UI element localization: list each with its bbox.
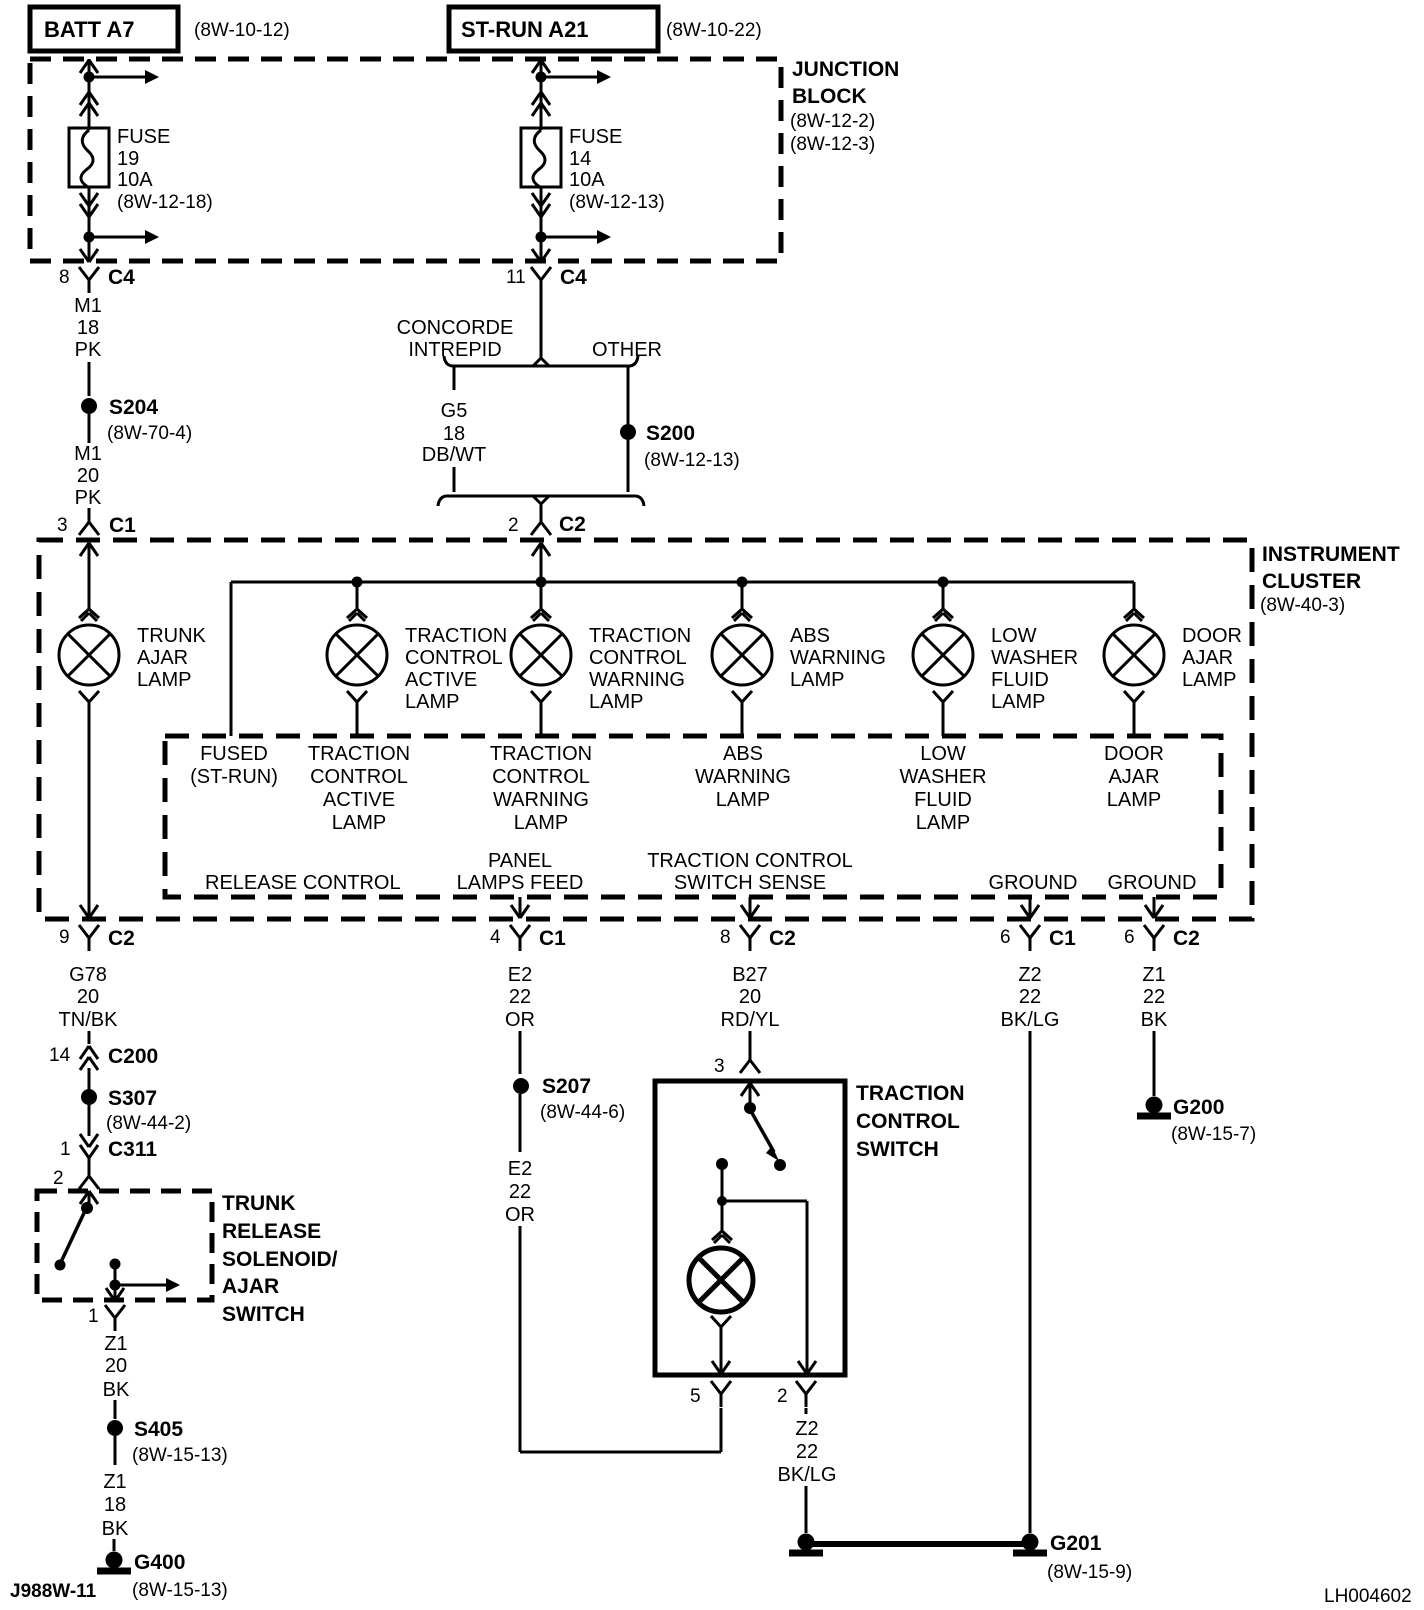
lamp fork top [531, 609, 551, 621]
label TRACTION CONTROL WARNING LAMP [589, 625, 691, 713]
label S204 (8W-70-4) [107, 396, 192, 444]
wire E2 22 OR lower [505, 1094, 535, 1226]
svg-text:6: 6 [1000, 927, 1011, 948]
svg-text:ACTIVE: ACTIVE [405, 669, 477, 691]
svg-text:LAMP: LAMP [716, 789, 770, 811]
splice S405 [107, 1420, 123, 1436]
wire below fuse [88, 187, 91, 261]
power feed box BATT A7 [30, 7, 178, 51]
wire cluster output x=750 [741, 897, 759, 918]
connector C2 pin 6 [1124, 925, 1200, 951]
lamp fork bottom [531, 691, 551, 702]
svg-text:Z2: Z2 [795, 1418, 818, 1440]
label G400 (8W-15-13) [132, 1551, 228, 1601]
arrow out of trunk release box [106, 1288, 124, 1301]
branch split bus [444, 356, 638, 366]
svg-text:CONTROL: CONTROL [589, 647, 687, 669]
lamp fork bottom [347, 691, 367, 702]
svg-text:PK: PK [75, 339, 102, 361]
wire lamp to cluster pins [942, 702, 945, 736]
svg-text:AJAR: AJAR [1108, 766, 1159, 788]
ground G201 right [1013, 1534, 1047, 1554]
svg-text:G5: G5 [441, 400, 468, 422]
svg-text:18: 18 [443, 423, 465, 445]
bus junction at x=357 [352, 577, 363, 588]
svg-text:Z1: Z1 [104, 1333, 127, 1355]
svg-text:FLUID: FLUID [914, 789, 972, 811]
svg-text:18: 18 [77, 317, 99, 339]
arrow into trunk release box [80, 1191, 98, 1204]
splice S207 [513, 1078, 529, 1094]
splice S204 [81, 398, 97, 414]
svg-text:SOLENOID/: SOLENOID/ [222, 1248, 338, 1271]
svg-text:LAMP: LAMP [137, 669, 191, 691]
svg-text:TRACTION: TRACTION [856, 1082, 965, 1105]
label G200 (8W-15-7) [1171, 1096, 1256, 1145]
switch internal junction [717, 1196, 807, 1361]
svg-text:2: 2 [53, 1168, 64, 1189]
instrument cluster label [1260, 543, 1400, 616]
svg-text:DOOR: DOOR [1104, 743, 1164, 765]
arrow into cluster at C1 [80, 543, 98, 556]
svg-text:BK: BK [1141, 1009, 1168, 1031]
svg-text:BK: BK [102, 1518, 129, 1540]
cluster feed bus [231, 582, 1134, 736]
svg-text:RELEASE CONTROL: RELEASE CONTROL [205, 872, 401, 894]
wire to S307 [88, 1068, 91, 1089]
wire lamp to cluster pins [741, 702, 744, 736]
connector pin 3 fork [714, 1047, 760, 1077]
wire G78 20 TN/BK [59, 964, 119, 1031]
lamp DOOR AJAR [1104, 625, 1164, 685]
lamp LOW WASHER [913, 625, 973, 685]
svg-text:ABS: ABS [790, 625, 830, 647]
svg-text:(8W-12-13): (8W-12-13) [644, 450, 740, 471]
svg-text:(8W-70-4): (8W-70-4) [107, 423, 192, 444]
svg-text:G201: G201 [1050, 1532, 1102, 1555]
wire cluster output x=1030 [1021, 897, 1039, 918]
lamp fork top [933, 609, 953, 621]
svg-text:22: 22 [509, 986, 531, 1008]
trunk ajar lamp fork top [79, 609, 99, 621]
svg-text:WARNING: WARNING [790, 647, 886, 669]
label CONCORDE INTREPID [397, 317, 514, 361]
svg-text:CONTROL: CONTROL [492, 766, 590, 788]
svg-text:B27: B27 [732, 964, 768, 986]
inline connector C200 pin 14 [49, 1045, 158, 1070]
svg-text:Z1: Z1 [103, 1471, 126, 1493]
wire to C311 [88, 1105, 91, 1136]
svg-text:9: 9 [59, 927, 70, 948]
svg-text:FUSED: FUSED [200, 743, 268, 765]
instrument cluster box [39, 540, 1252, 919]
svg-text:G200: G200 [1173, 1096, 1224, 1119]
svg-text:C311: C311 [108, 1138, 157, 1161]
wire to C200 [88, 1031, 91, 1044]
svg-text:TRACTION: TRACTION [308, 743, 410, 765]
svg-text:S204: S204 [109, 396, 158, 419]
pin function label GROUND (C1) [989, 872, 1078, 894]
svg-text:RELEASE: RELEASE [222, 1220, 321, 1243]
svg-text:TRUNK: TRUNK [222, 1192, 296, 1215]
label ABS WARNING LAMP [790, 625, 886, 691]
svg-text:8: 8 [720, 927, 731, 948]
connector C4 pin 11 [506, 266, 587, 293]
svg-text:10A: 10A [569, 169, 605, 191]
svg-text:CONTROL: CONTROL [405, 647, 503, 669]
fuse 14 value label [569, 126, 665, 213]
solenoid junction + branch arrow [110, 1278, 181, 1298]
arrow into traction switch box [741, 1083, 759, 1103]
svg-text:C1: C1 [1049, 927, 1076, 950]
arrow to switch pin 2 [798, 1361, 816, 1374]
wire to trunk release switch [88, 1158, 91, 1170]
svg-text:WARNING: WARNING [589, 669, 685, 691]
lamp TRACTION CONTROL [327, 625, 387, 685]
switch lamp fork bottom [711, 1316, 731, 1327]
svg-text:TRACTION: TRACTION [490, 743, 592, 765]
lamp drop wire x=943 [942, 582, 945, 609]
svg-text:E2: E2 [508, 1158, 532, 1180]
lamp fork top [732, 609, 752, 621]
svg-text:AJAR: AJAR [137, 647, 188, 669]
wire M1 18 PK [74, 295, 102, 396]
svg-text:C1: C1 [539, 927, 566, 950]
svg-text:WASHER: WASHER [899, 766, 986, 788]
connector C2 pin 8 [720, 925, 796, 951]
wire trunk lamp to C2 pin 9 [88, 702, 91, 918]
svg-text:ACTIVE: ACTIVE [323, 789, 395, 811]
wire lamp to cluster pins [356, 702, 359, 736]
wire lamp to cluster pins [1133, 702, 1136, 736]
svg-text:(8W-15-13): (8W-15-13) [132, 1580, 228, 1601]
svg-text:BATT A7: BATT A7 [44, 17, 134, 42]
svg-text:FUSE: FUSE [569, 126, 622, 148]
svg-text:(8W-40-3): (8W-40-3) [1260, 595, 1345, 616]
traction control switch box [655, 1081, 845, 1375]
svg-text:(8W-12-3): (8W-12-3) [790, 134, 875, 155]
switch lamp fork top [712, 1231, 732, 1243]
svg-text:(8W-10-12): (8W-10-12) [194, 20, 290, 41]
arrow into junction block [532, 60, 550, 73]
svg-text:M1: M1 [74, 443, 102, 465]
svg-text:5: 5 [690, 1386, 701, 1407]
wire lamp to cluster pins [540, 702, 543, 736]
trunk release solenoid/ajar switch box [37, 1191, 212, 1300]
svg-text:18: 18 [104, 1494, 126, 1516]
svg-text:11: 11 [506, 267, 526, 288]
label LH004602 [1324, 1586, 1412, 1607]
svg-text:14: 14 [569, 148, 591, 170]
branch merge bus [438, 496, 644, 509]
svg-text:INSTRUMENT: INSTRUMENT [1262, 543, 1400, 566]
connector C4 pin 8 [59, 266, 135, 293]
wire Z1 22 BK [1141, 964, 1168, 1031]
wire BATT feed at x=541 [540, 59, 543, 128]
wire Z1 20 BK [103, 1333, 130, 1419]
arrow into cluster at C2 [532, 543, 550, 556]
wire M1 20 PK [74, 414, 102, 509]
svg-text:G78: G78 [69, 964, 107, 986]
wire lamp to pin 5 [712, 1327, 730, 1374]
switch blade [752, 1113, 786, 1171]
svg-text:TRACTION: TRACTION [589, 625, 691, 647]
label TRUNK RELEASE SOLENOID/AJAR SWITCH [222, 1192, 338, 1326]
arrow out of junction block [532, 249, 550, 262]
svg-text:CONTROL: CONTROL [310, 766, 408, 788]
svg-text:3: 3 [57, 515, 68, 536]
svg-text:S405: S405 [134, 1418, 183, 1441]
wire below S200 [627, 440, 630, 492]
svg-text:LH004602: LH004602 [1324, 1586, 1412, 1607]
switch lamp contact [716, 1158, 728, 1197]
svg-text:E2: E2 [508, 964, 532, 986]
bus junction at x=541 [536, 577, 547, 588]
wire from C4 pin 11 [540, 293, 543, 360]
arrow out of junction block [80, 249, 98, 262]
label S405 (8W-15-13) [132, 1418, 228, 1466]
wire below fuse [540, 187, 543, 261]
label S200 (8W-12-13) [644, 422, 740, 471]
svg-text:BK/LG: BK/LG [1001, 1009, 1060, 1031]
svg-text:LOW: LOW [920, 743, 966, 765]
svg-text:BK/LG: BK/LG [778, 1464, 837, 1486]
svg-text:CONCORDE: CONCORDE [397, 317, 514, 339]
svg-text:S307: S307 [108, 1087, 157, 1110]
fuse 19 value label [117, 126, 213, 213]
wire OTHER branch [627, 367, 630, 424]
wire BATT feed at x=89 [88, 59, 91, 128]
ground link wire [812, 1541, 1024, 1547]
svg-text:1: 1 [60, 1139, 71, 1160]
svg-text:OR: OR [505, 1009, 535, 1031]
svg-text:Z2: Z2 [1018, 964, 1041, 986]
svg-text:8: 8 [59, 267, 70, 288]
svg-text:AJAR: AJAR [1182, 647, 1233, 669]
ajar switch common [81, 1202, 93, 1214]
svg-text:TN/BK: TN/BK [59, 1009, 119, 1031]
wire G5 18 DB/WT (CONCORDE branch) [422, 367, 486, 492]
arrow into junction block [80, 60, 98, 73]
svg-text:LAMP: LAMP [405, 691, 459, 713]
svg-text:AJAR: AJAR [222, 1275, 279, 1298]
lamp ABS WARNING [712, 625, 772, 685]
solenoid node [110, 1259, 121, 1286]
lamp drop wire x=742 [741, 582, 744, 609]
wire C2 pin 2 to bus [540, 543, 543, 582]
svg-text:TRUNK: TRUNK [137, 625, 207, 647]
fuse 14 10A [521, 118, 561, 187]
svg-text:LAMP: LAMP [514, 812, 568, 834]
lamp fork bottom [1124, 691, 1144, 702]
pin function label ABS WARNING LAMP [695, 743, 791, 811]
svg-text:LAMP: LAMP [916, 812, 970, 834]
svg-text:10A: 10A [117, 169, 153, 191]
wire to S207 [519, 1031, 522, 1074]
ajar switch blade [55, 1213, 85, 1271]
label OTHER [592, 339, 662, 361]
lamp TRACTION CONTROL [511, 625, 571, 685]
svg-text:FUSE: FUSE [117, 126, 170, 148]
arrow out of cluster [80, 905, 98, 918]
connector C2 pin 9 [59, 925, 135, 951]
label S207 (8W-44-6) [540, 1075, 625, 1123]
svg-text:SWITCH: SWITCH [222, 1303, 305, 1326]
lamp traction switch illumination [689, 1248, 753, 1312]
svg-text:Z1: Z1 [1142, 964, 1165, 986]
ground G200 [1137, 1097, 1171, 1117]
pin function label TRACTION CONTROL WARNING LAMP [490, 743, 592, 834]
wire Z2 22 BK/LG from C1 pin 6 [1029, 1031, 1032, 1533]
pin function label RELEASE CONTROL [205, 872, 401, 894]
svg-text:3: 3 [714, 1056, 725, 1077]
power feed box ST-RUN A21 [449, 7, 658, 51]
svg-text:20: 20 [77, 986, 99, 1008]
connector C1 pin 6 [1000, 925, 1076, 951]
svg-text:1: 1 [88, 1306, 99, 1327]
lamp trunk ajar [59, 625, 119, 685]
svg-text:20: 20 [739, 986, 761, 1008]
wire Z2 22 BK/LG [1001, 964, 1060, 1031]
lamp fork top [347, 609, 367, 621]
cluster internal box [165, 736, 1221, 897]
svg-text:CONTROL: CONTROL [856, 1110, 960, 1133]
trunk ajar lamp wire upper [88, 543, 91, 609]
label FUSED (ST-RUN) [190, 743, 278, 788]
lamp drop wire x=1134 [1133, 582, 1136, 609]
inline connector chevrons [532, 193, 550, 217]
label G201 (8W-15-9) [1047, 1532, 1132, 1583]
svg-text:C1: C1 [109, 514, 136, 537]
svg-text:G400: G400 [134, 1551, 185, 1574]
svg-text:20: 20 [105, 1355, 127, 1377]
label S307 (8W-44-2) [106, 1087, 191, 1134]
svg-text:DOOR: DOOR [1182, 625, 1242, 647]
label TRUNK AJAR LAMP [137, 625, 207, 691]
svg-text:SWITCH: SWITCH [856, 1138, 939, 1161]
svg-text:LAMP: LAMP [1107, 789, 1161, 811]
bus junction at x=943 [938, 577, 949, 588]
svg-text:DB/WT: DB/WT [422, 444, 486, 466]
junction block box [30, 59, 781, 261]
label TRACTION CONTROL ACTIVE LAMP [405, 625, 507, 713]
pin function label GROUND (C2) [1108, 872, 1197, 894]
lamp drop wire x=541 [540, 582, 543, 609]
wire Z1 22 BK to G200 [1153, 1031, 1156, 1096]
label (8W-10-22) [666, 20, 762, 41]
pin function label TRACTION CONTROL SWITCH SENSE [647, 850, 853, 894]
switch common contact [744, 1102, 756, 1114]
lamp fork bottom [732, 691, 752, 702]
svg-text:LAMP: LAMP [589, 691, 643, 713]
connector pin 1 fork [88, 1305, 125, 1331]
wire cluster output x=1154 [1145, 897, 1163, 918]
svg-text:PANEL: PANEL [488, 850, 552, 872]
svg-text:GROUND: GROUND [1108, 872, 1197, 894]
wire to traction switch pin 5 [520, 1226, 721, 1452]
svg-text:22: 22 [1143, 986, 1165, 1008]
svg-text:INTREPID: INTREPID [408, 339, 501, 361]
connector pin 2 fork [53, 1163, 99, 1189]
inline connector chevrons [80, 193, 98, 217]
label LOW WASHER FLUID LAMP [991, 625, 1078, 713]
svg-text:BK: BK [103, 1379, 130, 1401]
splice S200 [620, 424, 636, 440]
svg-text:C4: C4 [108, 266, 135, 289]
inline connector chevrons [532, 92, 550, 116]
ground G400 [97, 1552, 131, 1572]
svg-text:GROUND: GROUND [989, 872, 1078, 894]
svg-text:WARNING: WARNING [695, 766, 791, 788]
inline connector C311 pin 1 [60, 1134, 157, 1161]
svg-text:LAMP: LAMP [790, 669, 844, 691]
svg-text:C2: C2 [1173, 927, 1200, 950]
junction + branch arrow [536, 230, 612, 244]
svg-text:JUNCTION: JUNCTION [792, 58, 899, 81]
svg-text:PK: PK [75, 487, 102, 509]
svg-text:(8W-44-2): (8W-44-2) [106, 1113, 191, 1134]
svg-text:19: 19 [117, 148, 139, 170]
label J988W-11 [10, 1581, 97, 1602]
fuse 19 10A [69, 118, 109, 187]
pin function label LOW WASHER FLUID LAMP [899, 743, 986, 834]
svg-text:(8W-15-7): (8W-15-7) [1171, 1124, 1256, 1145]
svg-text:14: 14 [49, 1045, 71, 1066]
svg-text:22: 22 [1019, 986, 1041, 1008]
svg-text:LAMPS FEED: LAMPS FEED [457, 872, 584, 894]
label DOOR AJAR LAMP [1182, 625, 1242, 691]
svg-text:(8W-44-6): (8W-44-6) [540, 1102, 625, 1123]
svg-text:2: 2 [777, 1386, 788, 1407]
connector C1 pin 3 [57, 509, 136, 537]
svg-text:C2: C2 [559, 513, 586, 536]
wire Z1 18 BK [102, 1436, 129, 1551]
svg-text:CLUSTER: CLUSTER [1262, 570, 1361, 593]
svg-text:FLUID: FLUID [991, 669, 1049, 691]
svg-text:(8W-12-18): (8W-12-18) [117, 192, 213, 213]
svg-text:M1: M1 [74, 295, 102, 317]
svg-text:LAMP: LAMP [1182, 669, 1236, 691]
label (8W-10-12) [194, 20, 290, 41]
wire B27 20 RD/YL [721, 964, 780, 1031]
connector pin 2 fork [777, 1381, 816, 1407]
svg-text:OTHER: OTHER [592, 339, 662, 361]
junction + branch arrow [536, 70, 612, 84]
svg-text:ABS: ABS [723, 743, 763, 765]
junction + branch arrow [84, 70, 160, 84]
svg-text:C2: C2 [108, 927, 135, 950]
svg-text:LAMP: LAMP [332, 812, 386, 834]
pin function label PANEL LAMPS FEED [457, 850, 584, 894]
svg-text:6: 6 [1124, 927, 1135, 948]
svg-text:LAMP: LAMP [991, 691, 1045, 713]
svg-text:C4: C4 [560, 266, 587, 289]
wire cluster output x=520 [511, 897, 529, 918]
svg-text:WARNING: WARNING [493, 789, 589, 811]
svg-text:(8W-12-13): (8W-12-13) [569, 192, 665, 213]
connector pin 5 fork [690, 1381, 731, 1407]
wire junction to lamp [721, 1205, 724, 1231]
svg-text:C2: C2 [769, 927, 796, 950]
svg-text:ST-RUN A21: ST-RUN A21 [461, 17, 589, 42]
svg-text:RD/YL: RD/YL [721, 1009, 780, 1031]
junction + branch arrow [84, 230, 160, 244]
svg-text:S200: S200 [646, 422, 695, 445]
ground G201 left [789, 1534, 823, 1554]
inline connector chevrons [80, 92, 98, 116]
svg-text:(8W-12-2): (8W-12-2) [790, 111, 875, 132]
pin function label DOOR AJAR LAMP [1104, 743, 1164, 811]
